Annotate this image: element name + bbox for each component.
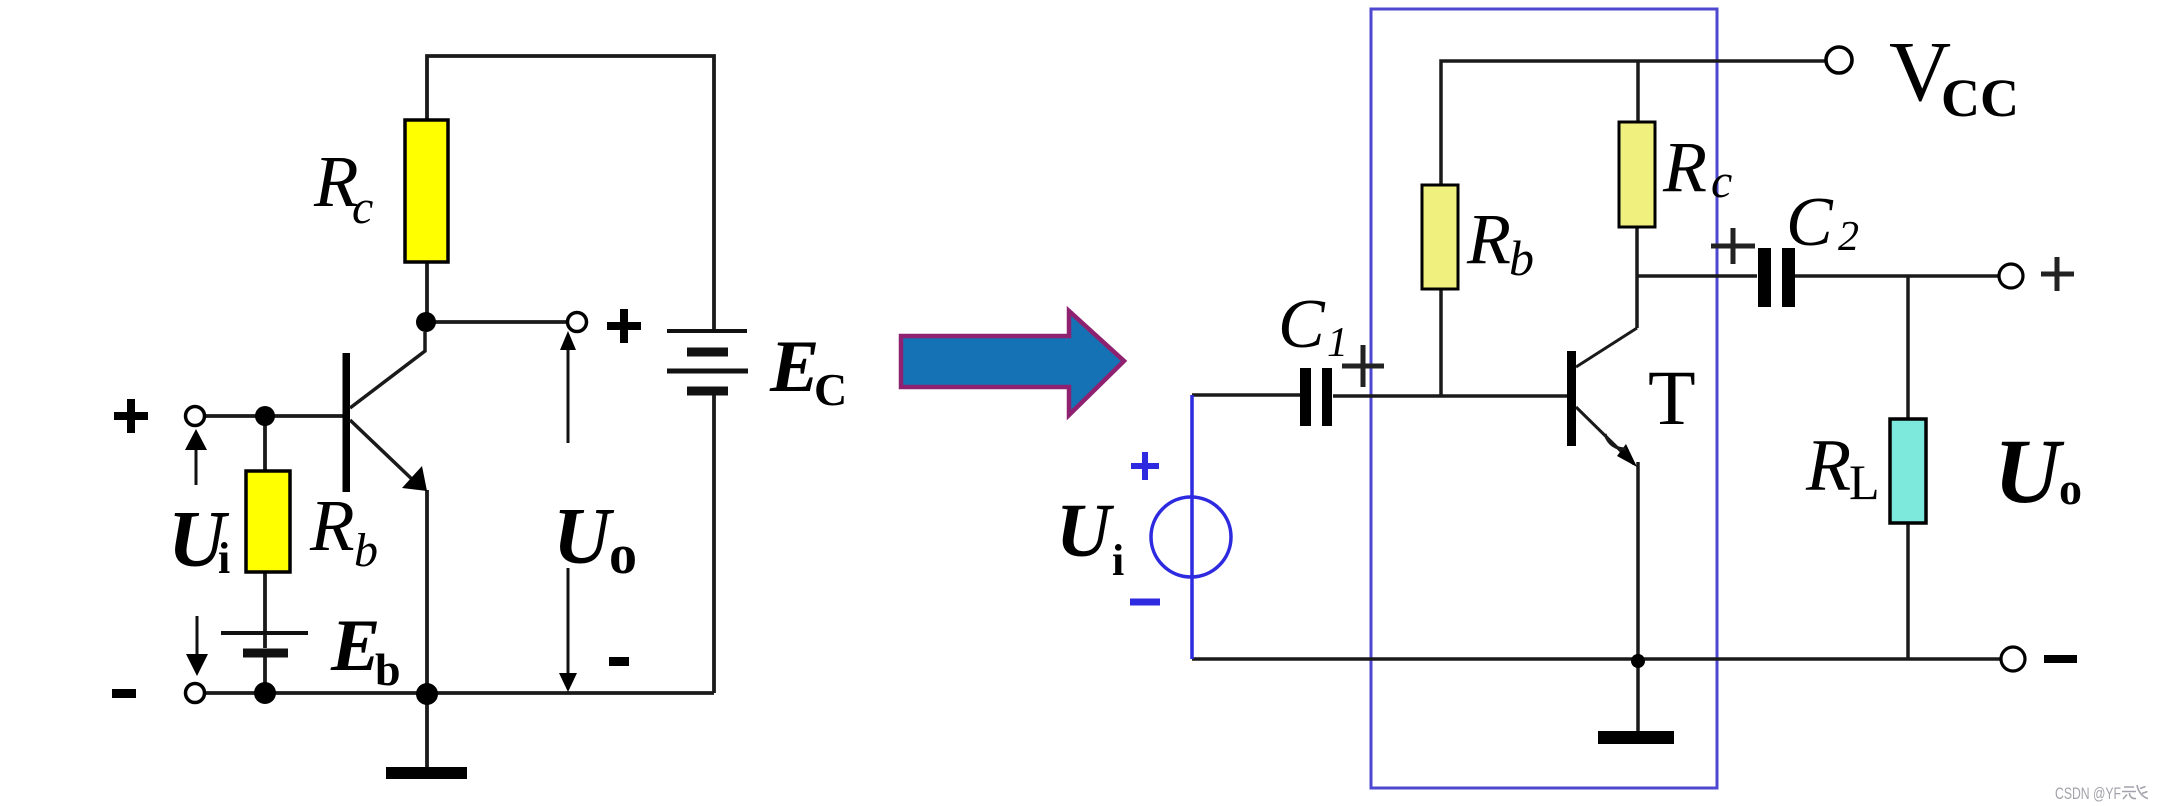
svg-text:c: c: [352, 181, 373, 234]
svg-text:b: b: [354, 524, 378, 577]
svg-text:2: 2: [1838, 214, 1859, 260]
svg-text:R: R: [1805, 425, 1851, 507]
svg-text:o: o: [2059, 463, 2082, 514]
svg-text:i: i: [218, 534, 230, 583]
svg-text:b: b: [375, 644, 401, 695]
svg-text:U: U: [553, 493, 615, 581]
svg-text:L: L: [1849, 454, 1880, 510]
svg-text:R: R: [1662, 127, 1707, 207]
svg-text:R: R: [1466, 199, 1511, 279]
svg-text:U: U: [1056, 489, 1115, 573]
svg-text:o: o: [609, 524, 637, 586]
svg-text:E: E: [330, 605, 380, 687]
svg-text:1: 1: [1327, 320, 1348, 366]
svg-text:i: i: [1112, 536, 1124, 585]
svg-text:CSDN @YF: CSDN @YF: [2055, 784, 2121, 803]
svg-text:U: U: [1994, 420, 2065, 522]
svg-text:CC: CC: [1941, 68, 2019, 128]
svg-text:b: b: [1509, 230, 1534, 286]
svg-text:C: C: [1278, 286, 1326, 363]
svg-text:C: C: [1786, 184, 1834, 261]
svg-text:E: E: [769, 326, 819, 408]
svg-text:c: c: [1711, 155, 1732, 208]
svg-text:C: C: [814, 364, 847, 415]
svg-text:T: T: [1648, 354, 1696, 441]
svg-text:R: R: [309, 485, 355, 566]
